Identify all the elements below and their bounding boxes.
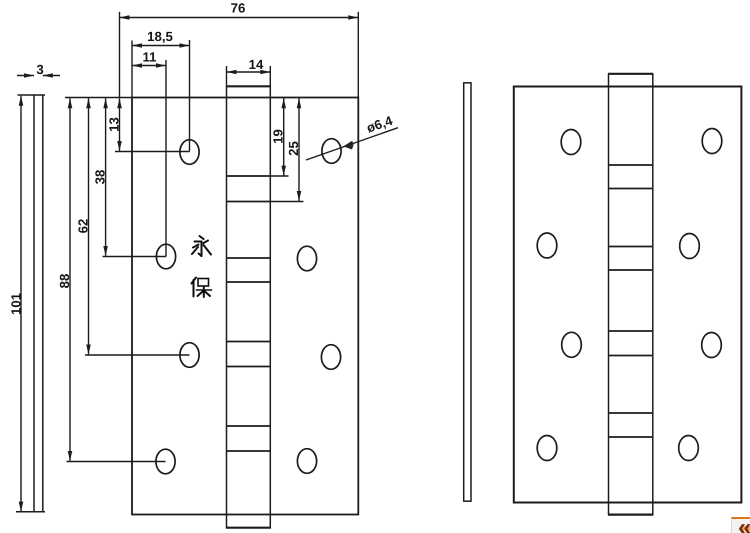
- svg-text:38: 38: [92, 170, 107, 185]
- svg-text:101: 101: [9, 293, 24, 315]
- svg-text:ø6,4: ø6,4: [365, 113, 395, 136]
- svg-text:25: 25: [286, 141, 301, 156]
- svg-text:76: 76: [231, 1, 246, 16]
- svg-text:13: 13: [106, 117, 121, 132]
- svg-text:14: 14: [249, 57, 264, 72]
- svg-text:19: 19: [271, 129, 286, 144]
- svg-text:3: 3: [36, 62, 43, 77]
- svg-text:88: 88: [57, 274, 72, 289]
- svg-text:11: 11: [143, 50, 157, 65]
- svg-text:18,5: 18,5: [147, 29, 173, 44]
- svg-text:62: 62: [75, 219, 90, 234]
